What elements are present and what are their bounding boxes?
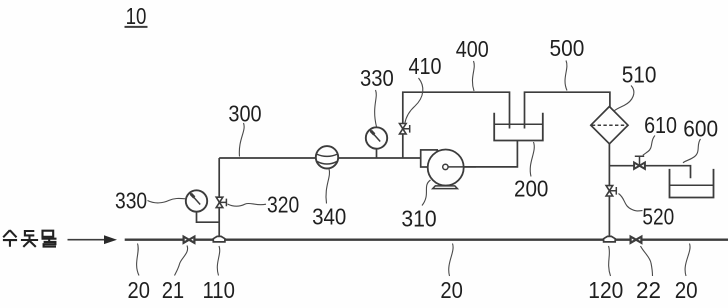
wire: filter down-pipe to fitting 120 [608, 144, 610, 240]
svg-text:340: 340 [312, 204, 346, 230]
svg-text:310: 310 [401, 205, 436, 231]
label 310 [401, 205, 436, 231]
wire: gauge 330 stub to riser [197, 211, 220, 222]
label 20 (left) [128, 277, 150, 303]
label 21 [162, 277, 185, 303]
svg-text:330: 330 [115, 188, 147, 214]
svg-text:600: 600 [683, 116, 718, 142]
svg-text:20: 20 [440, 277, 463, 303]
valve 610 (to tank 600, stem up) [634, 156, 645, 169]
leader for 320 [228, 203, 267, 206]
wire: pump outlet to tank 200 bottom [446, 141, 517, 167]
label 410 [409, 53, 442, 79]
label 600 [683, 116, 718, 142]
svg-text:320: 320 [267, 192, 299, 218]
svg-text:20: 20 [675, 277, 698, 303]
label 500 [550, 35, 585, 61]
leader for 510 [614, 86, 634, 111]
label 320 [267, 192, 299, 218]
korean label 수돗물 (tap water) [3, 230, 57, 247]
leader for 110 [217, 246, 219, 276]
wire: line 500 from tank 200 to filter 510 [525, 92, 610, 128]
tank 200 [494, 113, 543, 141]
leader for 330 upper [375, 90, 377, 127]
label 330 (left) [115, 188, 147, 214]
svg-text:110: 110 [203, 277, 235, 303]
wire: branch riser x=219 from fitting 110 up to line 300 [218, 158, 220, 240]
svg-text:410: 410 [409, 53, 442, 79]
valve 22 (main pipe right) [631, 237, 642, 243]
leader for 610 [643, 136, 655, 156]
leader for 300 [239, 123, 244, 157]
leader for 22 [641, 246, 653, 276]
wire: riser 410 and line 400 over to tank 200 [403, 92, 510, 158]
leader for 600 [683, 139, 701, 163]
label 110 [203, 277, 235, 303]
label 340 [312, 204, 346, 230]
label 300 [228, 100, 261, 126]
figure number 10 [126, 3, 147, 29]
leader for 500 [565, 61, 567, 91]
fitting 110 [213, 236, 225, 242]
svg-text:20: 20 [128, 277, 150, 303]
label 400 [456, 36, 489, 62]
svg-text:520: 520 [642, 204, 674, 230]
label 330 (upper) [360, 65, 394, 91]
svg-text:400: 400 [456, 36, 489, 62]
label 20 (middle) [440, 277, 463, 303]
valve 410 (on line 400 riser, with stem) [400, 124, 410, 134]
svg-text:22: 22 [636, 277, 661, 303]
pressure gauge 330 (left) [186, 190, 207, 211]
fitting 120 [604, 236, 616, 242]
label 20 (right) [675, 277, 698, 303]
leader for 20 (right) [685, 244, 690, 277]
svg-text:330: 330 [360, 65, 394, 91]
label 520 [642, 204, 674, 230]
wire: branch to valve 610 and tank 600 [609, 166, 690, 179]
tank 600 [670, 169, 714, 198]
svg-text:200: 200 [514, 175, 548, 201]
label 610 [644, 112, 677, 138]
leader for 520 [619, 194, 643, 211]
svg-text:510: 510 [622, 61, 657, 87]
svg-text:300: 300 [228, 100, 261, 126]
inlet arrow (tap water) [68, 235, 118, 244]
pressure gauge 330 (upper) [366, 127, 387, 158]
label 120 [588, 277, 623, 303]
svg-text:21: 21 [162, 277, 185, 303]
leader for 310 [422, 180, 431, 206]
svg-text:120: 120 [588, 277, 623, 303]
leader for 21 [175, 246, 188, 276]
underline of 10 [125, 26, 148, 28]
filter 510 [591, 107, 628, 144]
label 200 [514, 175, 548, 201]
svg-text:610: 610 [644, 112, 677, 138]
leader for 120 [609, 246, 611, 276]
leader for 20 (left) [137, 244, 139, 276]
main pipe 20 [125, 239, 728, 241]
valve 320 (on riser, with stem) [216, 197, 226, 207]
leader for 20 (middle) [449, 244, 453, 277]
leader for 330 left [148, 198, 186, 202]
wire: line 300 horizontal to pump [219, 157, 421, 159]
valve 520 (on filter down-pipe, with stem) [606, 186, 616, 196]
label 510 [622, 61, 657, 87]
label 22 [636, 277, 661, 303]
pump 310 [421, 150, 476, 189]
svg-text:500: 500 [550, 35, 585, 61]
leader for 400 [472, 61, 474, 91]
svg-text:10: 10 [126, 3, 147, 29]
leader for 340 [326, 169, 330, 204]
leader for 200 [530, 142, 534, 177]
flow meter 340 [316, 146, 338, 168]
valve 21 (main pipe left) [184, 237, 195, 243]
leader for 410 [405, 78, 423, 124]
